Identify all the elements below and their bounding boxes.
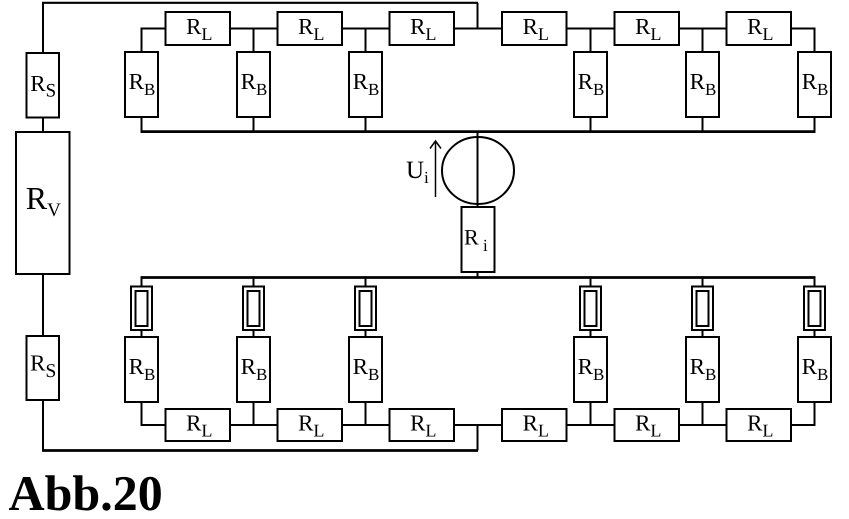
wire lamp #2 to RB	[253, 329, 255, 338]
resistor Rs (lower)	[27, 336, 60, 400]
label Ui	[407, 162, 429, 183]
wire through source from top bus to Ri	[477, 132, 479, 208]
wire Ri to bottom bus	[477, 271, 479, 278]
wire bottom bus to lamp #6	[814, 278, 816, 288]
resistor RB (bottom, #2)	[237, 337, 270, 402]
wire lamp #4 to RB	[590, 329, 592, 338]
wire lamp #3 to RB	[365, 329, 367, 338]
resistor RL (top line, #3)	[390, 12, 455, 45]
wire RB #4 to top bus	[590, 116, 592, 132]
resistor RL (bottom line, #8)	[278, 409, 343, 441]
resistor RB (top, #1)	[125, 52, 158, 117]
resistor RB (bottom, #6)	[798, 337, 831, 402]
wire Rv to lower Rs	[42, 274, 44, 337]
resistor RL (top line, #1)	[166, 12, 231, 45]
resistor Rv	[16, 132, 70, 274]
wire RB #6 to top bus	[814, 116, 816, 132]
wire bottom bus to lamp #4	[590, 278, 592, 288]
wire lamp #5 to RB	[702, 329, 704, 338]
wire RB bottom #4 to bottom row	[590, 401, 592, 425]
wire RB bottom #6 to bottom row	[814, 401, 816, 425]
wire bottom row stub left of RL7	[141, 424, 167, 426]
wire bottom bus to lamp #5	[702, 278, 704, 288]
wire bottom bus to lamp #3	[365, 278, 367, 288]
wire bottom row between RL11 and RL12	[678, 424, 728, 426]
voltage source U (circle)	[442, 137, 514, 204]
wire bottom row between RL8 and RL9	[341, 424, 391, 426]
wire RB #2 to top bus	[253, 116, 255, 132]
lamp (double-box, #3)	[355, 287, 376, 331]
resistor RB (bottom, #4)	[574, 337, 607, 402]
resistor RL (top line, #4)	[502, 12, 567, 45]
wire lamp #1 to RB	[141, 329, 143, 338]
wire top row between RL2 and RL3	[341, 28, 391, 30]
resistor RB (bottom, #1)	[125, 337, 158, 402]
wire return drop at bottom center	[477, 425, 479, 451]
wire top bus	[141, 130, 816, 133]
resistor RB (bottom, #5)	[686, 337, 719, 402]
wire junction drop to RB top #6	[814, 29, 816, 54]
wire top row between RL3 and RL4	[453, 28, 503, 30]
resistor RL (bottom line, #7)	[166, 409, 231, 441]
resistor RB (top, #4)	[574, 52, 607, 117]
lamp (double-box, #5)	[692, 287, 713, 331]
resistor RL (top line, #6)	[727, 12, 792, 45]
resistor Rs (upper)	[27, 53, 60, 118]
wire bottom row between RL10 and RL11	[566, 424, 616, 426]
wire top row between RL4 and RL5	[566, 28, 616, 30]
wire top row stub left of RL1	[141, 28, 167, 30]
resistor RB (top, #6)	[798, 52, 831, 117]
wire bottom return horizontal	[42, 449, 478, 452]
arrow Ui (points up)	[430, 141, 441, 197]
caption Abb.20	[9, 475, 161, 510]
wire junction drop to RB top #1	[141, 29, 143, 54]
wire bottom bus	[141, 276, 816, 279]
resistor RL (bottom line, #10)	[502, 409, 567, 441]
lamp (double-box, #2)	[243, 287, 264, 331]
wire RB bottom #5 to bottom row	[702, 401, 704, 425]
resistor RB (top, #3)	[349, 52, 382, 117]
wire bottom bus to lamp #2	[253, 278, 255, 288]
wire feed drop at top center	[477, 3, 479, 29]
wire RB bottom #2 to bottom row	[253, 401, 255, 425]
wire junction drop to RB top #5	[702, 29, 704, 54]
wire top-left horizontal	[42, 2, 478, 4]
wire junction drop to RB top #3	[365, 29, 367, 54]
resistor RL (bottom line, #9)	[390, 409, 455, 441]
wire RB #1 to top bus	[141, 116, 143, 132]
resistor RL (bottom line, #11)	[615, 409, 680, 441]
wire top row between RL5 and RL6	[678, 28, 728, 30]
wire bottom bus to lamp #1	[141, 278, 143, 288]
wire RB #5 to top bus	[702, 116, 704, 132]
wire top row stub right of RL6	[790, 28, 816, 30]
resistor RB (top, #2)	[237, 52, 270, 117]
wire lamp #6 to RB	[814, 329, 816, 338]
resistor RL (bottom line, #12)	[727, 409, 792, 441]
wire lower Rs down to bottom return	[42, 400, 44, 452]
wire bottom row stub right of RL12	[790, 424, 816, 426]
resistor RB (bottom, #3)	[349, 337, 382, 402]
wire bottom row between RL7 and RL8	[229, 424, 279, 426]
lamp (double-box, #6)	[804, 287, 825, 331]
resistor Ri	[462, 207, 495, 272]
wire junction drop to RB top #2	[253, 29, 255, 54]
resistor RL (top line, #2)	[278, 12, 343, 45]
resistor RB (top, #5)	[686, 52, 719, 117]
wire left vertical to Rs	[42, 3, 44, 54]
wire top row between RL1 and RL2	[229, 28, 279, 30]
wire RB #3 to top bus	[365, 116, 367, 132]
lamp (double-box, #1)	[131, 287, 152, 331]
wire bottom row between RL9 and RL10	[453, 424, 503, 426]
resistor RL (top line, #5)	[615, 12, 680, 45]
wire RB bottom #1 to bottom row	[141, 401, 143, 425]
lamp (double-box, #4)	[580, 287, 601, 331]
wire junction drop to RB top #4	[590, 29, 592, 54]
wire Rs to Rv	[42, 117, 44, 133]
wire RB bottom #3 to bottom row	[365, 401, 367, 425]
